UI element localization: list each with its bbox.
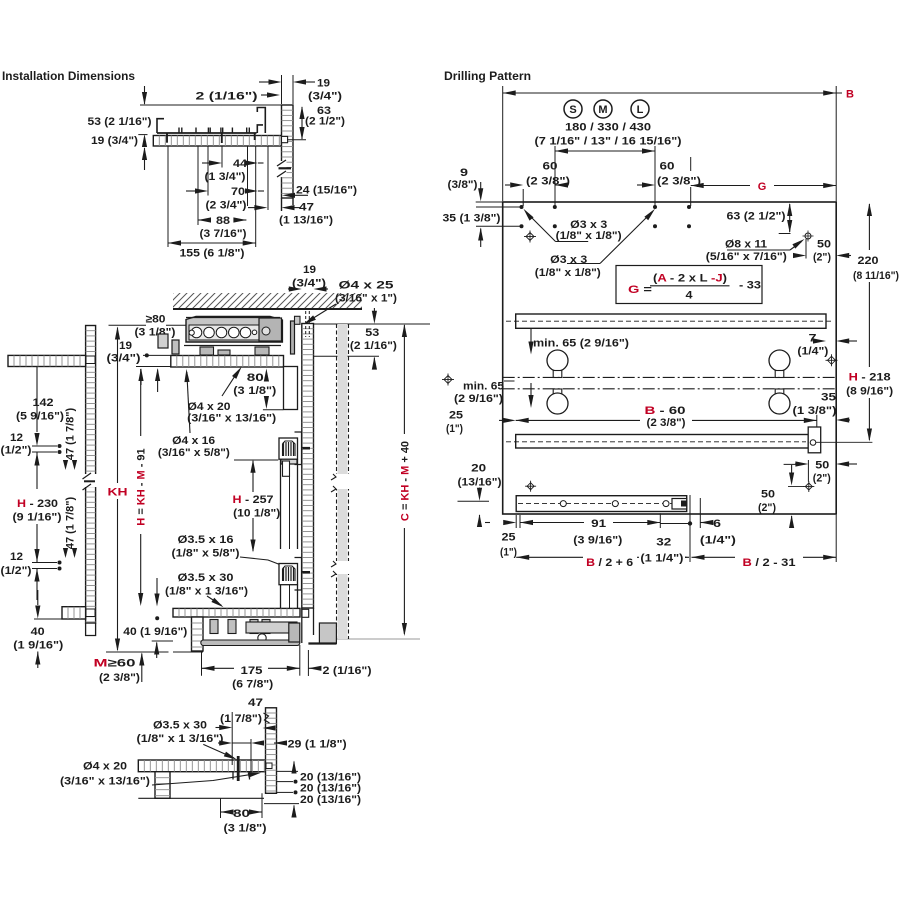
svg-text:12: 12 [10, 551, 23, 563]
svg-text:H - 218: H - 218 [849, 372, 891, 384]
fig3 screw position lines [231, 712, 233, 765]
svg-text:(3/8"): (3/8") [448, 179, 478, 191]
dp knob top-left [547, 350, 568, 371]
fig1 dim 63 [301, 107, 303, 139]
svg-text:19 (3/4"): 19 (3/4") [91, 135, 138, 147]
svg-text:H = KH - M - 91: H = KH - M - 91 [136, 448, 148, 525]
svg-text:(1"): (1") [500, 547, 517, 559]
fig2 rear panel bottom tab [301, 608, 303, 643]
svg-text:(3 7/16"): (3 7/16") [200, 228, 247, 240]
fig2 top slide mechanism body [186, 317, 282, 343]
fig2 top reference line [109, 324, 147, 326]
svg-text:220: 220 [858, 255, 879, 267]
dp dim B/2+6 [516, 555, 529, 560]
fig3 dim 29 [274, 740, 287, 745]
svg-text:(2"): (2") [813, 473, 831, 485]
svg-text:60: 60 [660, 161, 675, 173]
fig3 curly break mark [264, 713, 270, 723]
dp line from block [816, 441, 873, 443]
svg-text:(3 1/8"): (3 1/8") [224, 823, 267, 835]
svg-text:47 (1 7/8"): 47 (1 7/8") [65, 497, 77, 550]
svg-text:Ø4 x 25: Ø4 x 25 [339, 279, 394, 291]
svg-text:(9 1/16"): (9 1/16") [13, 512, 62, 524]
svg-text:60: 60 [543, 161, 558, 173]
fig2 wall hole marks lower [32, 562, 57, 564]
svg-text:(3/4"): (3/4") [107, 353, 141, 365]
svg-text:80: 80 [247, 372, 264, 384]
dp hole O8x11 [805, 233, 811, 239]
fig1 dim 44 [202, 162, 210, 164]
svg-text:40 (1 9/16"): 40 (1 9/16") [123, 626, 187, 638]
fig1 rail hook left [157, 119, 164, 133]
dp knob bottom-left [553, 389, 562, 397]
fig1 dim 53 arrows [144, 86, 146, 104]
dp diamond marker left [444, 376, 452, 384]
svg-text:(1 3/4"): (1 3/4") [205, 171, 246, 183]
svg-text:53 (2 1/16"): 53 (2 1/16") [88, 116, 152, 128]
dp dim 25 lower arrow [485, 522, 490, 524]
svg-text:40: 40 [31, 626, 45, 638]
fig2 mechanism feet [200, 347, 214, 355]
svg-text:44: 44 [233, 158, 248, 170]
dp rail bar 2 [516, 435, 809, 449]
fig1 dim 88 [198, 217, 211, 222]
fig2 bottom rear bracket [289, 623, 300, 642]
dp dim 91 [520, 520, 533, 525]
fig2 dim arrows under shelf [140, 370, 142, 386]
fig2 wall break [82, 474, 99, 487]
svg-text:(3/16" x 13/16"): (3/16" x 13/16") [187, 413, 276, 425]
svg-text:91: 91 [591, 518, 606, 530]
svg-text:50: 50 [761, 489, 775, 501]
svg-text:63 (2 1/2"): 63 (2 1/2") [727, 211, 786, 223]
svg-text:24 (15/16"): 24 (15/16") [296, 185, 357, 197]
svg-text:35 (1 3/8"): 35 (1 3/8") [443, 213, 501, 225]
fig2 left wall panel [86, 326, 96, 624]
fig1 rail top line [157, 132, 257, 134]
fig2 O4x20 leader [222, 371, 239, 397]
svg-text:25: 25 [449, 410, 463, 422]
fig2 front fixing bracket upper [279, 438, 298, 459]
svg-text:M: M [598, 104, 607, 116]
svg-text:(3/16" x 13/16"): (3/16" x 13/16") [60, 776, 150, 788]
dp G dimension [691, 183, 704, 188]
svg-text:G =: G = [628, 284, 652, 296]
svg-text:35: 35 [821, 392, 836, 404]
dp O3x3 leader 2 [567, 263, 600, 265]
fig1 dim 19 bottom arrow [144, 148, 146, 170]
fig2 wall hole marks upper [32, 445, 57, 447]
fig2 dim H-257 [250, 460, 255, 473]
fig1 dim 70 [186, 190, 196, 192]
svg-text:(A - 2 x L -J): (A - 2 x L -J) [653, 273, 727, 285]
fig1 horizontal panel [153, 136, 281, 147]
svg-text:B / 2 + 6: B / 2 + 6 [586, 557, 633, 569]
svg-text:(2 9/16"): (2 9/16") [454, 393, 503, 405]
fig2 front fixing bracket lower [279, 564, 298, 585]
fig1 line 63 bottom ref [288, 139, 306, 141]
svg-text:(2"): (2") [758, 502, 776, 514]
dp dashdot line 2 [503, 388, 837, 390]
fig1 vertical panel [282, 105, 294, 198]
fig3 panel notch [266, 763, 272, 769]
dp rail bar 1 [516, 314, 826, 328]
fig2 wall notch lower [86, 609, 95, 617]
dp hole left lower [527, 483, 534, 490]
fig2 O4x25 leader [307, 304, 336, 322]
svg-text:(2 1/16"): (2 1/16") [350, 340, 397, 352]
dp hole row 2 [520, 224, 524, 228]
svg-text:47: 47 [299, 202, 314, 214]
svg-text:H - 257: H - 257 [233, 494, 274, 506]
fig2 bottom foot bracket right [319, 623, 336, 644]
fig2 bottom front column [192, 617, 204, 651]
svg-text:Ø4 x 20: Ø4 x 20 [188, 401, 231, 413]
svg-text:G: G [758, 181, 767, 193]
fig2 gray front strip [338, 324, 348, 639]
dp dim min65 1 [530, 328, 532, 342]
svg-text:50: 50 [815, 460, 829, 472]
svg-text:S: S [569, 104, 576, 116]
svg-text:(5 9/16"): (5 9/16") [16, 411, 64, 423]
svg-text:47: 47 [248, 697, 263, 709]
fig2 bottom rail bar [201, 640, 300, 646]
fig1 screws in panel [166, 133, 168, 143]
fig2 wall top notch [86, 356, 95, 364]
fig2 ref line 53 bottom [314, 355, 380, 357]
svg-text:Ø3.5 x 30: Ø3.5 x 30 [178, 572, 234, 584]
fig2 dim H-230 [34, 453, 39, 466]
fig2 screw dashed lines [305, 311, 307, 337]
dp panel rectangle [503, 202, 837, 514]
fig3 right reference lines [277, 770, 298, 772]
svg-text:(6 7/8"): (6 7/8") [232, 679, 273, 691]
svg-text:19: 19 [317, 78, 330, 90]
dp left reference lines [476, 201, 502, 203]
svg-text:19: 19 [303, 264, 316, 276]
svg-text:B / 2 - 31: B / 2 - 31 [743, 557, 796, 569]
svg-text:2 (1/16"): 2 (1/16") [323, 665, 372, 677]
dp dim 60 left arrows [505, 184, 510, 186]
fig2 front column [280, 460, 282, 550]
svg-text:(1 1/4"): (1 1/4") [640, 553, 683, 565]
fig2 dim 53 [373, 308, 375, 311]
svg-text:70: 70 [231, 186, 245, 198]
fig2 O3.5x30 leader [207, 596, 222, 606]
dp dashdot line 1 [503, 376, 837, 378]
fig3 screw bar [237, 756, 240, 781]
fig2 front column lower part [280, 585, 282, 609]
fig2 mechanism top line [186, 317, 280, 319]
dp hole row 1 [520, 205, 524, 209]
fig2 dim 142 [36, 367, 38, 433]
svg-text:(1/8" x 1 3/16"): (1/8" x 1 3/16") [165, 586, 248, 598]
svg-text:47 (1 7/8"): 47 (1 7/8") [65, 408, 77, 461]
svg-text:Ø4 x 20: Ø4 x 20 [83, 761, 127, 773]
fig2 down arrow to shelf [156, 578, 158, 594]
fig1 dim 24 leader [282, 193, 295, 198]
svg-text:(3 9/16"): (3 9/16") [573, 535, 622, 547]
fig1 bottom extension lines [167, 146, 169, 247]
svg-text:(2 3/4"): (2 3/4") [206, 200, 247, 212]
dp dim 32 dot [660, 523, 688, 525]
fig2 O4x16 leader [187, 372, 190, 433]
svg-text:175: 175 [241, 665, 263, 677]
svg-text:(1/8" x 1/8"): (1/8" x 1/8") [556, 230, 622, 242]
svg-text:≥80: ≥80 [146, 314, 166, 326]
dp rail bar 3 [516, 496, 687, 512]
fig2 M reference line [106, 651, 169, 653]
svg-text:(2 3/8"): (2 3/8") [647, 417, 686, 429]
svg-text:6: 6 [713, 518, 721, 530]
dp size circles S M L [564, 100, 582, 118]
svg-text:(2 1/2"): (2 1/2") [305, 116, 345, 128]
fig3 dim 47 arrows [216, 727, 222, 729]
fig2 bottom mechanism bar [246, 622, 297, 633]
svg-text:B: B [846, 89, 854, 101]
fig2 C=KH-M+40 dimension line [402, 324, 407, 337]
fig1 dim 155 [168, 242, 256, 244]
fig2 top-left shelf band [8, 355, 86, 366]
svg-text:min. 65 (2 9/16"): min. 65 (2 9/16") [533, 338, 629, 350]
dp dim 50 lower [784, 463, 801, 465]
fig2 ceiling hatch [157, 289, 380, 309]
svg-text:50: 50 [817, 239, 831, 251]
fig1 panel break symbol [277, 161, 287, 177]
svg-text:(1"): (1") [446, 423, 463, 435]
fig2 bottom mechanism posts [210, 620, 218, 634]
fig1 dim 19 top arrows [259, 81, 269, 83]
dp knob bottom-right [775, 389, 784, 397]
fig3 shelf band [138, 760, 266, 772]
fig1 panel notch square [282, 136, 288, 142]
fig2 wall bottom tab [86, 623, 96, 636]
svg-text:Ø3.5 x 30: Ø3.5 x 30 [153, 720, 207, 732]
dp dim 63 [787, 203, 792, 216]
fig2 dim 40 left [37, 590, 39, 605]
fig1 rail clips [178, 128, 180, 134]
svg-text:32: 32 [656, 537, 671, 549]
svg-text:(2"): (2") [813, 252, 831, 264]
svg-text:(1/2"): (1/2") [1, 445, 32, 457]
svg-text:2 (1/16"): 2 (1/16") [196, 91, 258, 103]
fig2 mechanism left bracket [158, 334, 168, 348]
fig2 ref line 53 top [314, 323, 431, 325]
svg-text:25: 25 [502, 532, 516, 544]
fig2 strip break lower [333, 561, 351, 574]
dp O3x3 leader V [556, 241, 589, 243]
fig2 drawer bottom band [173, 608, 300, 617]
svg-text:C = KH - M + 40: C = KH - M + 40 [399, 441, 411, 521]
dp crosshair hole left [526, 233, 534, 241]
fig1 dim 19 top extensions [281, 75, 283, 104]
dp dim 7 [816, 340, 818, 342]
dp label 1 1/4 masked [639, 550, 685, 564]
svg-text:155 (6 1/8"): 155 (6 1/8") [180, 248, 245, 260]
svg-text:- 33: - 33 [739, 280, 761, 292]
svg-text:29 (1 1/8"): 29 (1 1/8") [288, 739, 347, 751]
dp diamond marker right [828, 356, 836, 364]
svg-text:(8 9/16"): (8 9/16") [846, 386, 893, 398]
svg-text:Ø4 x 16: Ø4 x 16 [172, 435, 215, 447]
svg-text:(10 1/8"): (10 1/8") [233, 508, 280, 520]
dp dim min65 2 [530, 383, 532, 396]
svg-text:(1/8" x 5/8"): (1/8" x 5/8") [172, 548, 240, 560]
fig3 O3.5x30 leader [203, 744, 234, 758]
svg-text:(5/16" x 7/16"): (5/16" x 7/16") [706, 251, 787, 263]
fig1 top reference line [140, 104, 282, 106]
svg-text:B - 60: B - 60 [645, 405, 686, 417]
svg-text:4: 4 [686, 290, 694, 302]
fig2 bracket screw upper [303, 447, 311, 450]
svg-text:(1 3/8"): (1 3/8") [793, 405, 837, 417]
svg-text:80: 80 [233, 808, 250, 820]
dp dim B/2-31 [692, 555, 705, 560]
fig2 rear bracket plate [291, 321, 295, 354]
fig2 strip break upper [333, 474, 351, 489]
svg-text:Installation Dimensions: Installation Dimensions [2, 71, 135, 83]
svg-text:20 (13/16"): 20 (13/16") [300, 783, 361, 795]
svg-text:(1/4"): (1/4") [700, 535, 736, 547]
fig3 dim 80 [220, 798, 222, 818]
fig2 dim 2 [307, 650, 309, 676]
dp dim 50 mid [795, 463, 798, 465]
dp knob top-right [769, 350, 790, 371]
dp dim 20 left [458, 500, 490, 502]
fig2 rear panel notch [302, 609, 309, 617]
fig1 dim 2 arrow [261, 94, 267, 96]
svg-text:(8 11/16"): (8 11/16") [853, 270, 899, 282]
dp dim 60 right arrows [637, 184, 642, 186]
dp dim 180 line [555, 150, 655, 152]
dp dim 6 [700, 520, 713, 525]
svg-text:min. 65: min. 65 [463, 381, 504, 393]
svg-text:M≥60: M≥60 [94, 658, 136, 670]
svg-text:88: 88 [216, 215, 230, 227]
svg-text:(3 1/8"): (3 1/8") [233, 385, 276, 397]
fig2 bottom shelf stub [62, 607, 86, 619]
fig2 H=KH-M-91 dimension line [140, 369, 142, 436]
dp dim 9 [480, 182, 482, 190]
svg-text:(1/2"): (1/2") [1, 565, 32, 577]
dp formula box [616, 266, 762, 304]
fig1 vertical panel bottom tab [281, 198, 283, 211]
svg-text:19: 19 [119, 340, 132, 352]
fig2 19 leader dot and lines [145, 353, 149, 357]
svg-text:(1 13/16"): (1 13/16") [279, 215, 333, 227]
svg-text:(1/8" x 1 3/16"): (1/8" x 1 3/16") [137, 733, 224, 745]
svg-text:142: 142 [33, 397, 54, 409]
svg-text:(2 3/8"): (2 3/8") [99, 672, 140, 684]
svg-text:(3/4"): (3/4") [308, 91, 342, 103]
dp dim 25 arrow [499, 419, 503, 421]
dp dim 50 top [793, 255, 796, 257]
dp B dimension [502, 86, 504, 201]
fig2 mechanism roller band [189, 325, 259, 340]
fig2 arrow below lower holes [34, 569, 39, 582]
dp extension lines top [554, 146, 556, 206]
fig2 bracket screw lower [303, 571, 311, 574]
fig2 M dim arrow [139, 653, 144, 666]
svg-text:Ø3 x 3: Ø3 x 3 [550, 254, 587, 266]
svg-text:9: 9 [460, 167, 468, 179]
fig2 rear fixing bracket upper-right [281, 439, 297, 465]
fig2 spacer box [284, 367, 298, 410]
svg-text:(1/8" x 1/8"): (1/8" x 1/8") [535, 267, 601, 279]
svg-text:(13/16"): (13/16") [458, 477, 502, 489]
svg-text:20 (13/16"): 20 (13/16") [300, 794, 361, 806]
svg-text:(7 1/16" / 13" / 16 15/16"): (7 1/16" / 13" / 16 15/16") [535, 136, 682, 148]
svg-text:53: 53 [365, 327, 379, 339]
svg-text:Ø3.5 x 16: Ø3.5 x 16 [178, 534, 234, 546]
fig3 front column [155, 772, 170, 799]
fig3 arrows 20 chain [291, 761, 296, 774]
fig2 ref line H-257 top [234, 459, 278, 461]
fig2 bracket wing upper [295, 432, 302, 465]
svg-text:L: L [637, 104, 644, 116]
dp B-60 dimension [516, 418, 529, 423]
fig2 KH dimension line [117, 328, 119, 484]
svg-text:H - 230: H - 230 [17, 498, 58, 510]
fig3 rear panel [266, 708, 277, 794]
dp rail 3 end block [672, 499, 687, 510]
svg-text:KH: KH [108, 487, 128, 499]
fig2 mechanism right block [259, 318, 282, 341]
fig2 line 40 target [152, 640, 173, 642]
svg-text:180 / 330 / 430: 180 / 330 / 430 [565, 122, 651, 134]
fig3 dim arrows second row [218, 742, 222, 744]
svg-text:(3/16" x 1"): (3/16" x 1") [335, 293, 397, 305]
fig1 dim 47 [248, 207, 255, 209]
svg-text:(1 9/16"): (1 9/16") [13, 640, 63, 652]
dp 220 dimension line [867, 203, 872, 216]
svg-text:Drilling Pattern: Drilling Pattern [444, 71, 531, 83]
svg-text:(3/16" x 5/8"): (3/16" x 5/8") [158, 447, 230, 459]
fig2 floor line [335, 638, 420, 640]
dp dim 35 right arrow [836, 417, 849, 422]
fig2 top shelf band [171, 356, 284, 368]
fig1 rail Z-bracket [257, 108, 265, 134]
fig2 line under bottom shelf [34, 618, 62, 620]
fig3 O4x20 leader [152, 774, 257, 786]
svg-text:12: 12 [10, 432, 23, 444]
svg-text:Ø8 x 11: Ø8 x 11 [725, 239, 767, 251]
fig2 O3.5x16 leader [240, 557, 281, 565]
fig2 rear panel [302, 324, 314, 609]
dp hole right lower [805, 483, 812, 490]
svg-text:20: 20 [471, 463, 486, 475]
fig2 dim 175 [201, 651, 203, 676]
dp front block [808, 427, 821, 453]
fig2 bottom rollers [258, 634, 266, 642]
svg-text:(3 1/8"): (3 1/8") [135, 327, 176, 339]
svg-text:(1/4"): (1/4") [797, 346, 828, 358]
fig2 bracket wing lower [295, 558, 302, 591]
fig3 clip ticks [232, 772, 234, 780]
svg-text:(1 7/8"): (1 7/8") [220, 713, 262, 725]
fig3 bottom line [138, 797, 264, 799]
